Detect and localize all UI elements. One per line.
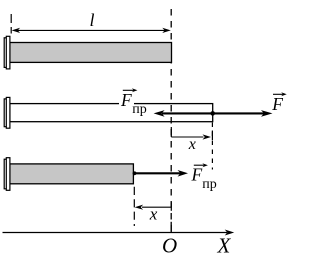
label F_pr (row 2) (119, 88, 147, 117)
X axis (3, 230, 235, 236)
svg-text:пр: пр (202, 177, 217, 192)
svg-text:x: x (188, 136, 196, 153)
svg-text:F: F (191, 165, 203, 185)
junction dot at end of bar 3 (133, 171, 137, 175)
svg-text:x: x (149, 205, 158, 224)
svg-text:O: O (162, 234, 177, 258)
wall mount collar 2 (4, 97, 10, 128)
dashed line at stretched end (x displacement, right) (211, 123, 213, 191)
dashed reference line at natural-length position (x = 0 of axis) (170, 9, 172, 232)
svg-text:F: F (271, 94, 283, 114)
applied force arrow F (row 2, pointing right) (213, 110, 273, 117)
short dashed line at wall (left end of l dimension) (10, 14, 12, 34)
spring force arrow F_pr (row 3, pointing right) (134, 170, 188, 177)
svg-text:l: l (90, 10, 95, 30)
label F_pr (row 3) (191, 163, 220, 192)
label F (row 2, right) (271, 92, 287, 114)
wall mount collar 1 (4, 36, 10, 69)
dimension arrow x (row 3, pointing left) (135, 202, 172, 211)
wall mount collar 3 (4, 158, 10, 191)
svg-text:F: F (120, 90, 132, 110)
junction dot at end of bar 2 (210, 111, 215, 116)
dashed line at compressed end (row 3) (133, 187, 135, 226)
origin tick (170, 222, 172, 233)
spring force arrow F_pr (row 2, pointing left) (154, 110, 213, 117)
dimension arrow l (double headed) (12, 28, 171, 33)
spring bar 1 (unstretched, gray) (10, 43, 172, 63)
svg-text:X: X (217, 234, 232, 258)
svg-text:пр: пр (132, 102, 147, 117)
dimension arrow x (row 2) (171, 127, 212, 140)
spring bar 3 (compressed, gray) (10, 164, 133, 184)
spring bar 2 (stretched, outline only) (10, 104, 213, 122)
